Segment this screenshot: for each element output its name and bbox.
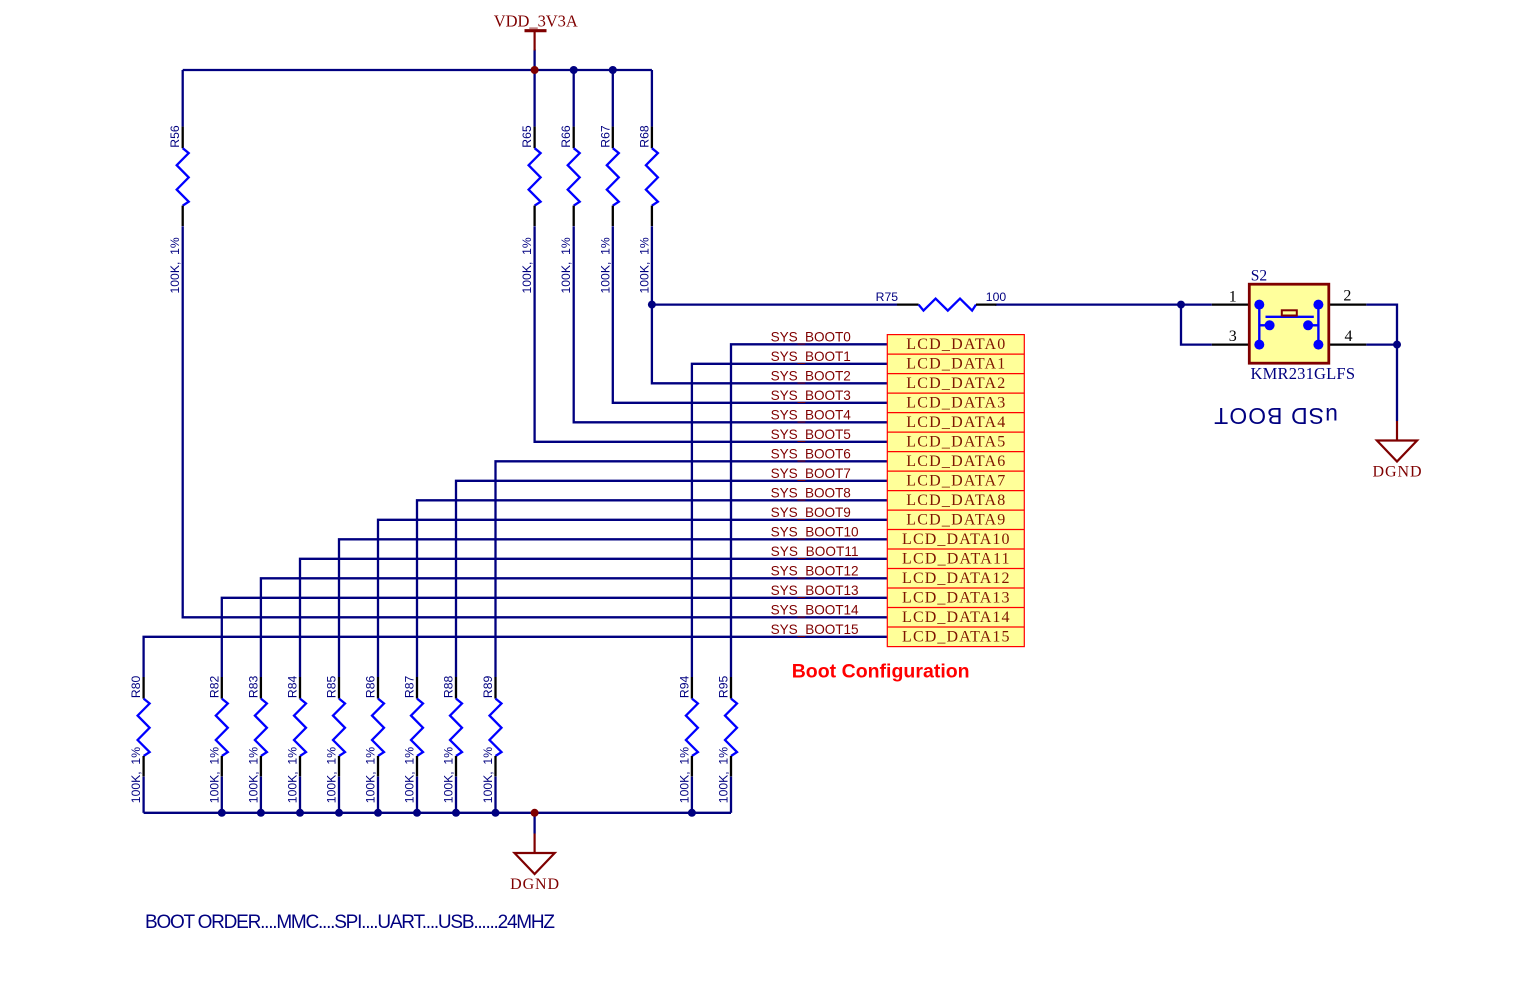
- junction R82 at ground bus: [218, 809, 226, 817]
- svg-text:SYS_BOOT9: SYS_BOOT9: [771, 505, 851, 520]
- wire SYS_BOOT10 to R85: [339, 539, 889, 677]
- wire SYS_BOOT6 to R89: [496, 461, 890, 677]
- svg-text:R84: R84: [286, 676, 300, 699]
- wire R68 to SYS_BOOT2 (node SYS_BOOT2): [652, 226, 889, 383]
- wire R65 to SYS_BOOT5: [535, 226, 889, 442]
- wire R82 to ground bus: [221, 777, 223, 813]
- svg-text:SYS_BOOT12: SYS_BOOT12: [771, 564, 859, 579]
- wire R87 to ground bus: [416, 777, 418, 813]
- resistor R95 (100K, 1%): [717, 676, 738, 804]
- junction R67 at bus: [609, 66, 617, 74]
- wire R89 to ground bus: [494, 777, 496, 813]
- svg-text:SYS_BOOT7: SYS_BOOT7: [771, 466, 851, 481]
- resistor R56 (100K, 1%): [168, 125, 189, 293]
- svg-text:1: 1: [1229, 289, 1237, 306]
- svg-text:R83: R83: [246, 676, 260, 699]
- wire R67 to SYS_BOOT3: [613, 226, 889, 403]
- svg-text:2: 2: [1343, 287, 1351, 304]
- junction S2 pin2/pin4: [1393, 341, 1401, 349]
- junction R94 at ground bus: [688, 809, 696, 817]
- svg-text:100K, 1%: 100K, 1%: [559, 237, 573, 293]
- resistor R82 (100K, 1%): [207, 676, 228, 804]
- junction S2 pin1/pin3: [1177, 301, 1185, 309]
- svg-text:R68: R68: [637, 125, 651, 148]
- junction node SYS_BOOT2 / R75: [648, 301, 656, 309]
- wire SYS_BOOT11 to R84: [300, 559, 889, 677]
- svg-text:R82: R82: [207, 676, 221, 699]
- svg-text:100K, 1%: 100K, 1%: [520, 237, 534, 293]
- resistor R94 (100K, 1%): [677, 676, 698, 804]
- svg-text:LCD_DATA1: LCD_DATA1: [906, 356, 1005, 373]
- junction R66 at bus: [570, 66, 578, 74]
- svg-text:LCD_DATA8: LCD_DATA8: [906, 492, 1005, 509]
- svg-text:uSD BOOT: uSD BOOT: [1214, 403, 1338, 429]
- wire SYS_BOOT13 to R82: [222, 598, 889, 677]
- svg-text:SYS_BOOT11: SYS_BOOT11: [771, 544, 859, 559]
- wire VDD_3V3A to R65: [533, 50, 535, 127]
- wire R80 to ground bus: [142, 777, 144, 813]
- wire SYS_BOOT2 to R75: [652, 303, 897, 305]
- resistor R65 (100K, 1%): [520, 125, 541, 293]
- svg-text:LCD_DATA9: LCD_DATA9: [906, 512, 1005, 529]
- svg-text:DGND: DGND: [510, 876, 559, 893]
- svg-text:100K, 1%: 100K, 1%: [598, 237, 612, 293]
- svg-text:LCD_DATA5: LCD_DATA5: [906, 434, 1005, 451]
- wire R75 to S2 pin 1: [995, 303, 1181, 305]
- svg-text:R85: R85: [325, 676, 339, 699]
- ground DGND (right): [1373, 421, 1422, 480]
- junction R86 at ground bus: [374, 809, 382, 817]
- wire S2 pin 2 down: [1366, 305, 1397, 345]
- junction DGND at ground bus: [531, 809, 539, 817]
- wire R88 to ground bus: [455, 777, 457, 813]
- resistor R66 (100K, 1%): [559, 125, 580, 293]
- wire SYS_BOOT8 to R87: [417, 500, 889, 677]
- svg-text:LCD_DATA15: LCD_DATA15: [902, 629, 1010, 646]
- wire SYS_BOOT7 to R88: [456, 481, 889, 677]
- svg-text:R67: R67: [598, 125, 612, 148]
- svg-text:KMR231GLFS: KMR231GLFS: [1251, 364, 1356, 383]
- resistor R86 (100K, 1%): [364, 676, 385, 804]
- svg-text:BOOT ORDER....MMC....SPI....UA: BOOT ORDER....MMC....SPI....UART....USB.…: [145, 912, 555, 933]
- svg-text:LCD_DATA10: LCD_DATA10: [902, 531, 1010, 548]
- resistor R80 (100K, 1%): [129, 676, 150, 804]
- svg-text:SYS_BOOT5: SYS_BOOT5: [771, 427, 851, 442]
- wire bus to R66: [573, 70, 575, 127]
- svg-text:LCD_DATA13: LCD_DATA13: [902, 590, 1010, 607]
- wire bottom ground bus: [144, 812, 731, 814]
- resistor R85 (100K, 1%): [325, 676, 346, 804]
- svg-text:100K, 1%: 100K, 1%: [246, 747, 260, 803]
- svg-text:LCD_DATA2: LCD_DATA2: [906, 375, 1005, 392]
- svg-text:LCD_DATA0: LCD_DATA0: [906, 336, 1005, 353]
- resistor R83 (100K, 1%): [246, 676, 267, 804]
- wire SYS_BOOT0 to R95: [731, 344, 889, 677]
- svg-text:R95: R95: [717, 676, 731, 699]
- wire SYS_BOOT9 to R86: [378, 520, 889, 677]
- wire bus to R68: [651, 70, 653, 127]
- wire R95 to ground bus: [730, 777, 732, 813]
- junction R87 at ground bus: [413, 809, 421, 817]
- wire to S2 pin 1: [1181, 303, 1212, 305]
- wire bus to R56: [182, 70, 184, 127]
- wire SYS_BOOT1 to R94: [692, 364, 889, 677]
- junction R85 at ground bus: [335, 809, 343, 817]
- wire R66 to SYS_BOOT4: [574, 226, 889, 422]
- svg-text:4: 4: [1345, 328, 1353, 345]
- wire R83 to ground bus: [260, 777, 262, 813]
- svg-text:100K, 1%: 100K, 1%: [207, 747, 221, 803]
- wire SYS_BOOT15 to R80: [144, 637, 889, 677]
- ground DGND (bottom): [510, 834, 559, 893]
- resistor R68 (100K, 1%): [637, 125, 658, 293]
- svg-text:LCD_DATA7: LCD_DATA7: [906, 473, 1005, 490]
- wire top VDD bus: [183, 69, 652, 71]
- resistor R87 (100K, 1%): [403, 676, 424, 804]
- svg-text:R86: R86: [364, 676, 378, 699]
- svg-text:SYS_BOOT10: SYS_BOOT10: [771, 525, 859, 540]
- svg-text:LCD_DATA11: LCD_DATA11: [902, 551, 1010, 568]
- svg-text:100K, 1%: 100K, 1%: [129, 747, 143, 803]
- resistor R75 (100): [876, 290, 1007, 310]
- wire R85 to ground bus: [338, 777, 340, 813]
- wire S2 to DGND: [1396, 345, 1398, 421]
- svg-text:100K, 1%: 100K, 1%: [442, 747, 456, 803]
- svg-text:VDD_3V3A: VDD_3V3A: [494, 12, 578, 31]
- svg-text:LCD_DATA3: LCD_DATA3: [906, 395, 1005, 412]
- svg-text:SYS_BOOT6: SYS_BOOT6: [771, 447, 851, 462]
- svg-text:SYS_BOOT0: SYS_BOOT0: [771, 330, 852, 345]
- junction R88 at ground bus: [452, 809, 460, 817]
- svg-text:LCD_DATA4: LCD_DATA4: [906, 414, 1005, 431]
- svg-text:3: 3: [1229, 328, 1237, 345]
- svg-text:100K, 1%: 100K, 1%: [286, 747, 300, 803]
- wire ground bus to DGND: [533, 813, 535, 834]
- wire R56 to SYS_BOOT14: [183, 226, 889, 617]
- wire R94 to ground bus: [691, 777, 693, 813]
- svg-text:SYS_BOOT2: SYS_BOOT2: [771, 369, 851, 384]
- svg-text:100K, 1%: 100K, 1%: [677, 747, 691, 803]
- svg-text:100K, 1%: 100K, 1%: [637, 237, 651, 293]
- svg-text:R94: R94: [677, 676, 691, 699]
- junction R89 at ground bus: [492, 809, 500, 817]
- wire SYS_BOOT12 to R83: [261, 578, 889, 677]
- svg-text:DGND: DGND: [1373, 463, 1422, 480]
- resistor R67 (100K, 1%): [598, 125, 619, 293]
- svg-text:SYS_BOOT4: SYS_BOOT4: [771, 408, 852, 423]
- svg-text:R56: R56: [168, 125, 182, 148]
- svg-text:100K, 1%: 100K, 1%: [481, 747, 495, 803]
- svg-text:SYS_BOOT15: SYS_BOOT15: [771, 622, 859, 637]
- svg-text:SYS_BOOT8: SYS_BOOT8: [771, 486, 851, 501]
- resistor R88 (100K, 1%): [442, 676, 463, 804]
- svg-text:SYS_BOOT3: SYS_BOOT3: [771, 388, 851, 403]
- wire bus to R67: [612, 70, 614, 127]
- svg-text:100: 100: [986, 290, 1007, 304]
- wire to S2 pin 3: [1181, 305, 1212, 345]
- junction VDD at bus: [531, 66, 539, 74]
- svg-text:SYS_BOOT1: SYS_BOOT1: [771, 349, 851, 364]
- svg-text:LCD_DATA14: LCD_DATA14: [902, 609, 1010, 626]
- svg-text:100K, 1%: 100K, 1%: [403, 747, 417, 803]
- wire S2 pin 4: [1366, 343, 1397, 345]
- wire R84 to ground bus: [299, 777, 301, 813]
- svg-text:R65: R65: [520, 125, 534, 148]
- svg-text:R87: R87: [403, 676, 417, 699]
- resistor R84 (100K, 1%): [286, 676, 307, 804]
- svg-text:R75: R75: [876, 290, 899, 304]
- svg-text:100K, 1%: 100K, 1%: [364, 747, 378, 803]
- wire R86 to ground bus: [377, 777, 379, 813]
- svg-text:R66: R66: [559, 125, 573, 148]
- svg-text:LCD_DATA12: LCD_DATA12: [902, 570, 1010, 587]
- junction R84 at ground bus: [296, 809, 304, 817]
- svg-text:R80: R80: [129, 676, 143, 699]
- svg-text:S2: S2: [1251, 268, 1267, 285]
- svg-text:R89: R89: [481, 676, 495, 699]
- junction R83 at ground bus: [257, 809, 265, 817]
- svg-text:100K, 1%: 100K, 1%: [717, 747, 731, 803]
- LCD_DATA off-page connector table: [887, 335, 1024, 647]
- svg-text:100K, 1%: 100K, 1%: [325, 747, 339, 803]
- svg-text:Boot Configuration: Boot Configuration: [792, 661, 970, 683]
- svg-text:100K, 1%: 100K, 1%: [168, 237, 182, 293]
- svg-text:SYS_BOOT13: SYS_BOOT13: [771, 583, 859, 598]
- svg-text:LCD_DATA6: LCD_DATA6: [906, 453, 1005, 470]
- svg-text:SYS_BOOT14: SYS_BOOT14: [771, 603, 859, 618]
- resistor R89 (100K, 1%): [481, 676, 502, 804]
- power symbol VDD_3V3A: [494, 12, 578, 51]
- switch S2 KMR231GLFS: [1212, 284, 1367, 363]
- svg-text:R88: R88: [442, 676, 456, 699]
